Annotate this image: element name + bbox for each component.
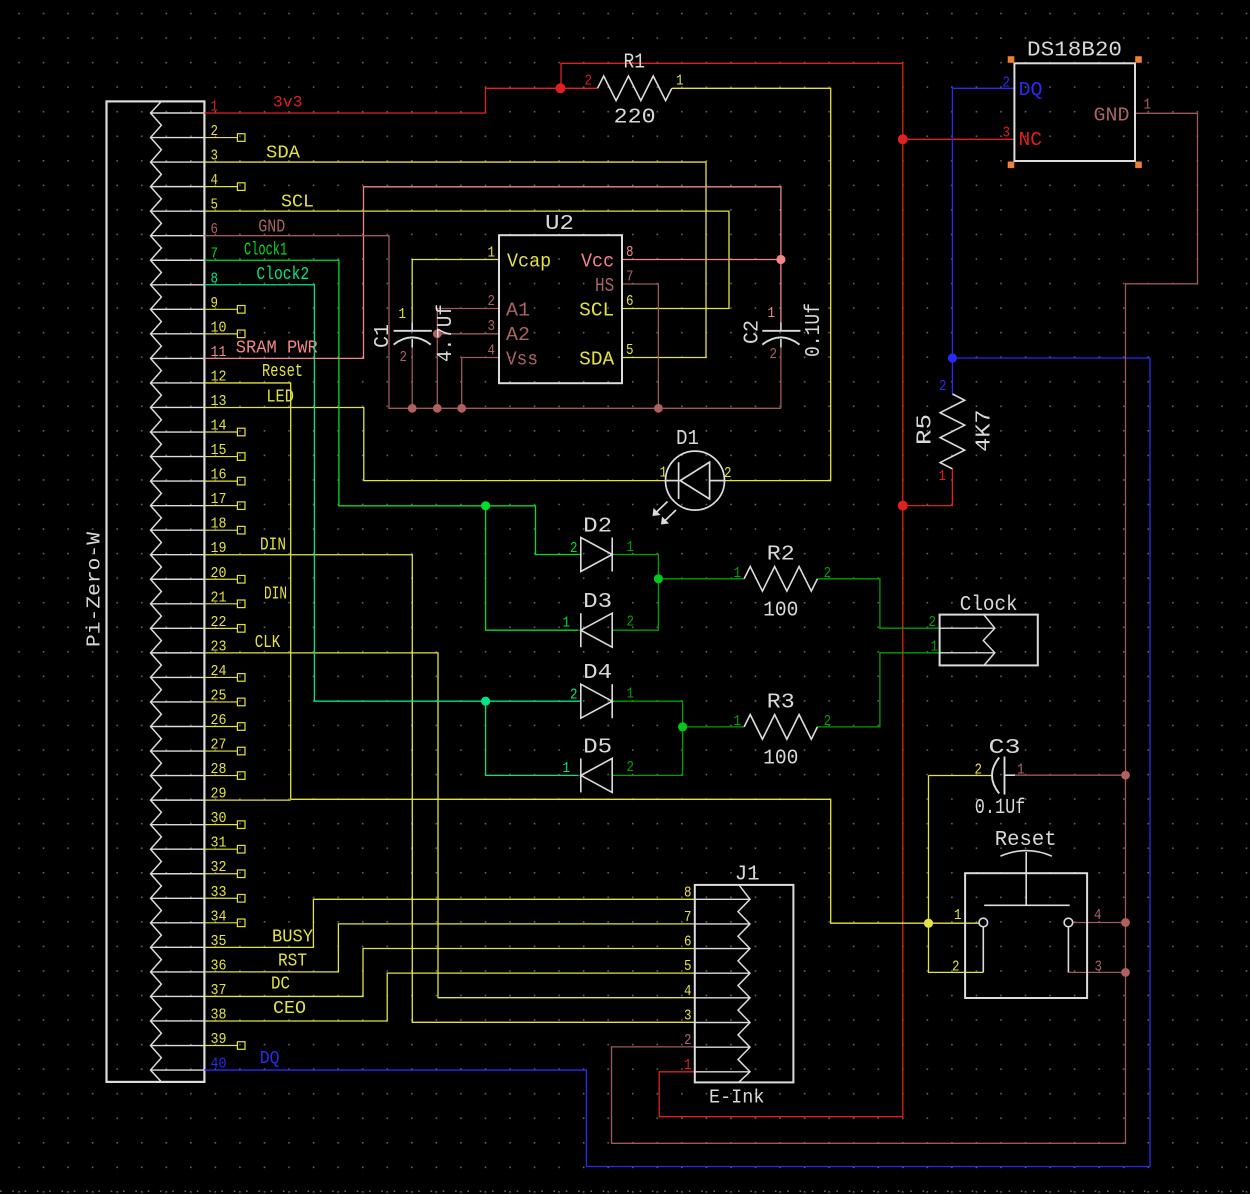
svg-text:8: 8 [626,245,634,261]
Pi-Zero-W pin 13 [151,406,205,408]
svg-text:DQ: DQ [260,1049,280,1069]
wire Clock2 to D5 pin 1 [486,701,579,775]
wire Reset to switch [291,799,929,923]
Pi-Zero-W pin 3 [151,161,205,163]
LED D1 [666,451,725,510]
svg-text:GND: GND [1094,105,1130,127]
wire GND SW1 pin 4 [1073,922,1126,924]
wire SDA [204,162,706,357]
IC U2 body [499,235,622,383]
svg-text:R2: R2 [767,543,795,567]
svg-text:1: 1 [627,540,635,556]
Pi-Zero-W pin 20 [151,578,205,580]
svg-text:D3: D3 [583,590,612,614]
svg-text:DIN: DIN [260,536,286,556]
svg-text:8: 8 [684,885,692,901]
wire junction to R3 pin 1 [683,726,745,728]
Pi-Zero-W pin 4 [151,186,205,188]
svg-text:2: 2 [724,466,732,482]
junction GND A1 A2 [433,329,442,338]
svg-text:DIN: DIN [264,585,287,605]
svg-text:LED: LED [266,388,294,408]
wire GND C1 pin 2 [411,348,413,409]
Pi-Zero-W pin 1 [151,112,205,114]
resistor R3 [744,715,817,740]
wire Reset from pin 12 [204,383,290,799]
svg-text:1: 1 [734,714,742,730]
wire D5 anode to junction [612,727,682,776]
Pi-Zero-W pin 18 [151,529,205,531]
svg-text:3: 3 [488,319,496,335]
svg-text:Vcc: Vcc [581,251,614,273]
diode D3 [581,613,612,647]
Pi-Zero-W pin 12 [151,382,205,384]
wire DIN to J1 pin 3 [204,555,694,1023]
svg-text:5: 5 [626,343,634,359]
svg-text:2: 2 [627,615,635,631]
Pi-Zero-W pin 15 [151,456,205,458]
svg-text:2: 2 [952,960,960,976]
svg-text:2: 2 [824,714,832,730]
svg-text:1: 1 [734,566,742,582]
junction GND SW1 pin 4 [1121,918,1130,927]
Pi-Zero-W pin 8 [151,284,205,286]
svg-text:1: 1 [684,1058,692,1074]
junction GND SW1 pin 3 [1121,968,1130,977]
wire Clock2 from pin 8 [204,285,485,701]
svg-text:BUSY: BUSY [272,928,313,948]
Pi-Zero-W pin 25 [151,701,205,703]
Pi-Zero-W pin 21 [151,603,205,605]
svg-text:2: 2 [488,294,496,310]
wire R2 pin 2 to Clock pin 2 [817,579,939,628]
wire GND U2 A1 [437,309,499,334]
svg-text:1: 1 [399,307,407,323]
wire GND U2 Vss [462,358,499,409]
svg-text:0.1Uf: 0.1Uf [975,796,1026,820]
Pi-Zero-W pin 7 [151,259,205,261]
svg-text:4K7: 4K7 [973,409,997,451]
junction GND HS [654,404,663,413]
resistor R1 [598,76,672,101]
capacitor C2 [780,322,782,331]
wire GND SW1 pin 3 [1068,971,1125,973]
svg-text:DQ: DQ [1019,79,1043,101]
svg-text:2: 2 [1003,76,1011,92]
svg-text:1: 1 [660,466,668,482]
svg-text:1: 1 [676,74,684,90]
Pi-Zero-W pin 2 [151,137,205,139]
resistor R2 [744,567,817,592]
wire 3v3 down to J1 pin 1 [659,506,903,1117]
svg-text:R3: R3 [767,691,795,715]
svg-text:C3: C3 [989,736,1021,760]
svg-text:CLK: CLK [255,633,281,653]
svg-text:D2: D2 [583,515,612,539]
wire BUSY to J1 pin 8 [204,899,694,947]
wire GND from pin 6 [204,236,781,409]
svg-text:Reset: Reset [262,361,303,382]
connector Clock [940,615,1038,666]
Pi-Zero-W pin 22 [151,627,205,629]
wire CLK to J1 pin 4 [204,653,694,998]
svg-text:2: 2 [824,566,832,582]
svg-text:A1: A1 [506,300,530,322]
wire GND DS18B20 pin 1 [612,113,1198,1143]
svg-text:2: 2 [627,760,635,776]
Pi-Zero-W pin 6 [151,235,205,237]
connector Pi-Zero-W zigzag [151,101,162,1082]
wire R3 pin 2 to Clock pin 1 [817,653,939,727]
svg-text:7: 7 [684,910,692,926]
junction GND C1 [408,404,417,413]
Pi-Zero-W pin 30 [151,824,205,826]
svg-text:1: 1 [931,640,939,656]
svg-text:2: 2 [929,615,937,631]
wire CEO to J1 pin 5 [204,973,694,1021]
wire Reset pin 29 stub [204,799,290,801]
svg-text:4.7Uf: 4.7Uf [434,304,458,362]
diode D5 [581,758,612,792]
svg-text:2: 2 [570,688,578,704]
svg-text:SDA: SDA [579,349,615,371]
junction Reset net [924,919,933,928]
wire D3 anode to junction [612,579,658,630]
junction Clock2 [481,697,490,706]
svg-text:2: 2 [570,541,578,557]
svg-text:7: 7 [626,270,634,286]
Pi-Zero-W pin 19 [151,554,205,556]
wire Reset up to C3 [928,776,930,924]
wire GND U2 A2 [437,333,499,335]
svg-text:1: 1 [488,246,496,262]
svg-text:NC: NC [1019,129,1043,151]
svg-text:2: 2 [585,74,593,90]
wire DQ from pin 40 [204,358,1150,1167]
svg-text:1: 1 [1144,98,1152,114]
wire DC to J1 pin 6 [204,949,694,997]
wire C3 pin 2 lead [929,775,993,777]
svg-text:E-Ink: E-Ink [709,1087,764,1109]
resistor R5 [940,394,965,469]
svg-text:3: 3 [1095,960,1103,976]
wire 3v3 to DS18B20 NC [903,138,1015,140]
svg-text:220: 220 [614,106,656,130]
wire Clock1 from pin 7 [204,260,485,506]
svg-text:Reset: Reset [995,828,1057,852]
svg-text:4: 4 [1094,908,1102,924]
wire D2 cathode to junction [612,555,658,579]
svg-text:Pi-Zero-W: Pi-Zero-W [84,532,106,647]
svg-text:2: 2 [939,379,947,395]
svg-text:SCL: SCL [579,300,614,322]
wire Clock2 to D4 pin 2 [486,700,581,702]
Pi-Zero-W pin 23 [151,652,205,654]
wire Clock1 to D2 pin 2 [486,506,581,555]
svg-text:SRAM PWR: SRAM PWR [236,339,318,359]
wire 3v3 to R1 pin 2 [561,87,598,89]
junction GND C3 [1121,771,1130,780]
svg-text:R5: R5 [914,414,938,445]
wire 3v3 down right side [902,139,904,505]
wire Vcap to C1 [412,260,499,323]
svg-text:Clock1: Clock1 [244,240,287,261]
svg-text:A2: A2 [506,324,530,346]
Pi-Zero-W pin 31 [151,848,205,850]
Pi-Zero-W pin 29 [151,799,205,801]
svg-text:3: 3 [684,1009,692,1025]
wire Reset to SW1 pin 2 [929,923,984,972]
junction GND Vss [457,404,466,413]
svg-text:C2: C2 [741,320,765,344]
wire D4 cathode to junction [612,701,682,727]
junction D2 D3 R2 [654,574,663,583]
Pi-Zero-W pin 33 [151,897,205,899]
svg-text:RST: RST [278,952,307,972]
junction DQ at R5 [948,353,957,362]
svg-text:Clock: Clock [960,593,1018,617]
wire GND U2 HS [622,284,658,408]
svg-text:1: 1 [768,306,776,322]
Pi-Zero-W pin 39 [151,1045,205,1047]
svg-text:2: 2 [400,350,408,366]
svg-text:2: 2 [684,1033,692,1049]
Pi-Zero-W pin 10 [151,333,205,335]
svg-text:1: 1 [563,761,571,777]
svg-text:3v3: 3v3 [273,93,303,111]
junction GND A2 [433,404,442,413]
svg-text:R1: R1 [624,51,646,75]
svg-text:1: 1 [939,469,947,485]
Pi-Zero-W pin 16 [151,480,205,482]
svg-text:HS: HS [595,275,614,297]
svg-text:1: 1 [954,908,962,924]
diode D4 [581,684,612,718]
svg-text:DC: DC [271,975,290,995]
wire Vcc to C2 pin 1 [780,260,782,323]
wire junction to R2 pin 1 [658,578,744,580]
Pi-Zero-W pin 36 [151,971,205,973]
svg-text:Clock2: Clock2 [256,264,309,285]
wire SCL [204,211,729,308]
Pi-Zero-W pin 11 [151,357,205,359]
svg-text:6: 6 [626,294,634,310]
Pi-Zero-W pin 17 [151,505,205,507]
svg-text:4: 4 [684,984,692,1000]
Pi-Zero-W pin 9 [151,308,205,310]
Pi-Zero-W pin 28 [151,775,205,777]
wire 3v3 from pin 1 [204,88,560,113]
Pi-Zero-W pin 32 [151,873,205,875]
svg-text:4: 4 [488,344,496,360]
svg-text:100: 100 [763,747,798,771]
switch SW1 Reset [965,873,1087,998]
svg-text:Vcap: Vcap [507,251,551,273]
svg-text:0.1Uf: 0.1Uf [802,303,826,357]
junction Vcc C2 [776,255,785,264]
junction 3v3 at R5 [898,501,908,511]
svg-text:3: 3 [1003,126,1011,142]
junction 3v3 at NC [898,134,908,144]
svg-text:Vss: Vss [506,349,538,371]
wire LED to D1 pin 1 [204,407,665,480]
junction Clock1 [481,501,490,510]
svg-text:2: 2 [770,347,778,363]
wire DQ up to DS18B20 [951,88,953,358]
capacitor C1 [411,322,413,331]
Pi-Zero-W pin 34 [151,922,205,924]
svg-text:D5: D5 [583,735,612,759]
Pi-Zero-W pin 26 [151,726,205,728]
wire 3v3 to R5 pin 1 [903,469,953,506]
wire GND A2 down [436,334,438,409]
wire GND C3 pin 1 [1015,774,1126,776]
svg-text:1: 1 [563,616,571,632]
Pi-Zero-W pin 40 [151,1069,205,1071]
svg-text:GND: GND [258,218,285,238]
svg-text:DS18B20: DS18B20 [1027,39,1122,63]
svg-text:D4: D4 [583,661,612,685]
svg-text:1: 1 [627,687,635,703]
svg-text:1: 1 [1017,763,1025,779]
wire DQ into DS18B20 pin 2 [952,87,1014,89]
svg-text:C1: C1 [371,324,395,348]
Pi-Zero-W pin 27 [151,750,205,752]
wire SRAM PWR from pin 11 [204,187,781,359]
wire 3v3 bypass over R1 [561,63,903,139]
svg-text:SDA: SDA [266,144,300,164]
Pi-Zero-W pin 38 [151,1020,205,1022]
wire GND C2 pin 2 [780,348,782,409]
Pi-Zero-W pin 5 [151,210,205,212]
Pi-Zero-W pin 14 [151,431,205,433]
Pi-Zero-W pin 35 [151,946,205,948]
sensor DS18B20 body [1014,63,1135,161]
svg-text:CEO: CEO [273,999,306,1019]
capacitor C3 [992,758,999,794]
Pi-Zero-W pin 37 [151,995,205,997]
junction 3v3 at R1 [556,83,566,93]
diode D2 [581,538,612,572]
connector J1 body [695,885,794,1083]
connector Pi-Zero-W body [107,101,205,1082]
wire Reset into SW1 pin 1 [929,922,980,924]
svg-text:6: 6 [684,935,692,951]
svg-text:J1: J1 [735,863,760,887]
wire R1 to D1 pin 2 [672,88,831,480]
Pi-Zero-W pin 24 [151,676,205,678]
svg-text:D1: D1 [676,427,699,451]
svg-text:100: 100 [763,599,798,623]
wire Clock1 to D3 pin 1 [486,506,579,630]
svg-text:5: 5 [684,959,692,975]
junction D4 D5 R3 [678,722,687,731]
wire RST to J1 pin 7 [204,924,694,972]
svg-text:2: 2 [975,763,983,779]
svg-text:SCL: SCL [281,193,314,213]
svg-text:U2: U2 [545,212,574,236]
wire Vcc from U2 pin 8 [622,259,781,261]
wire DQ to R5 pin 2 [951,358,953,394]
